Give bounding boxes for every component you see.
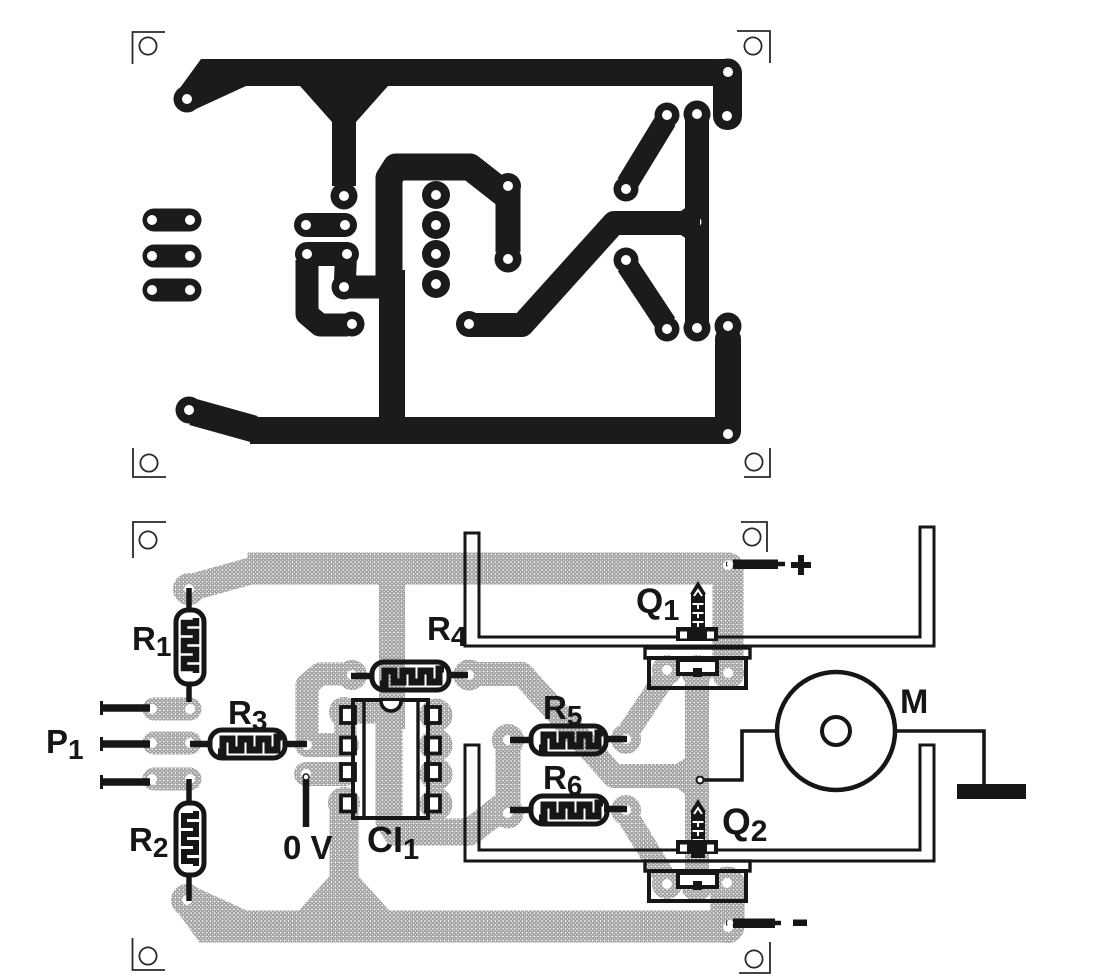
pin 4 — [341, 796, 355, 812]
registration mark top PCB top-right — [737, 31, 770, 63]
registration mark top PCB top-left — [133, 32, 166, 64]
resistor R2 (vertical) — [176, 779, 204, 901]
potentiometer P1 leads — [101, 708, 150, 782]
svg-text:R3: R3 — [228, 694, 267, 736]
IC body outline — [353, 700, 428, 818]
component-side PCB artwork (halftone gray, bottom half, vertically flipped) — [147, 555, 742, 941]
heatsink flange — [645, 861, 750, 871]
center clip — [678, 873, 717, 887]
resistor R4 (horizontal) — [351, 662, 468, 690]
package body — [649, 871, 746, 901]
registration mark top PCB bottom-right — [744, 448, 770, 477]
registration mark bottom PCB top-left — [133, 522, 166, 558]
svg-text:Q2: Q2 — [722, 801, 767, 848]
registration mark bottom PCB top-right — [741, 522, 767, 552]
resistor R6 (horizontal) — [510, 796, 627, 824]
pin 7 — [426, 738, 440, 754]
clamp bar — [676, 627, 718, 641]
supply + terminal — [726, 562, 785, 567]
motor M wire right — [896, 731, 984, 786]
notch — [381, 701, 401, 711]
svg-text:R6: R6 — [543, 759, 582, 801]
bracket rail S2 (bottom) — [465, 745, 934, 861]
pin 6 — [426, 764, 440, 780]
resistor R5 (horizontal) — [510, 726, 627, 754]
IC CI1 (8-pin DIP) — [341, 700, 440, 818]
registration mark bottom PCB bottom-left — [133, 938, 166, 970]
mounting screw — [691, 592, 705, 628]
motor M body — [777, 672, 895, 790]
transistor Q1 — [645, 581, 750, 688]
registration marks (black, both halves) — [133, 31, 771, 973]
pin 1 — [341, 707, 355, 723]
svg-text:0 V: 0 V — [283, 829, 333, 866]
svg-text:M: M — [900, 683, 928, 721]
pin 8 — [426, 707, 440, 723]
svg-text:R2: R2 — [129, 821, 168, 863]
pin 3 — [341, 764, 355, 780]
resistor R1 (vertical) — [176, 588, 204, 702]
svg-text:R1: R1 — [132, 620, 171, 662]
motor M wire left — [702, 731, 776, 780]
heatsink flange — [645, 648, 750, 658]
clamp bar — [676, 840, 718, 854]
labels — [46, 582, 928, 866]
pin 2 — [341, 738, 355, 754]
registration mark top PCB bottom-left — [133, 448, 166, 477]
solder-side PCB artwork (black, top half) — [147, 59, 742, 445]
mounting screw — [691, 810, 705, 858]
bracket rail S1 (top) — [465, 527, 934, 646]
registration mark bottom PCB bottom-right — [739, 942, 770, 973]
0V marker — [303, 780, 310, 827]
supply - terminal — [726, 921, 781, 926]
svg-text:R5: R5 — [543, 689, 582, 731]
svg-text:P1: P1 — [46, 723, 84, 765]
pin 5 — [426, 796, 440, 812]
center clip — [678, 660, 717, 674]
package body — [649, 658, 746, 688]
svg-text:Q1: Q1 — [636, 582, 679, 627]
transistor Q2 — [645, 799, 750, 901]
resistor R3 (horizontal) — [190, 730, 307, 758]
svg-text:R4: R4 — [427, 610, 467, 652]
ground bar — [957, 784, 1026, 799]
